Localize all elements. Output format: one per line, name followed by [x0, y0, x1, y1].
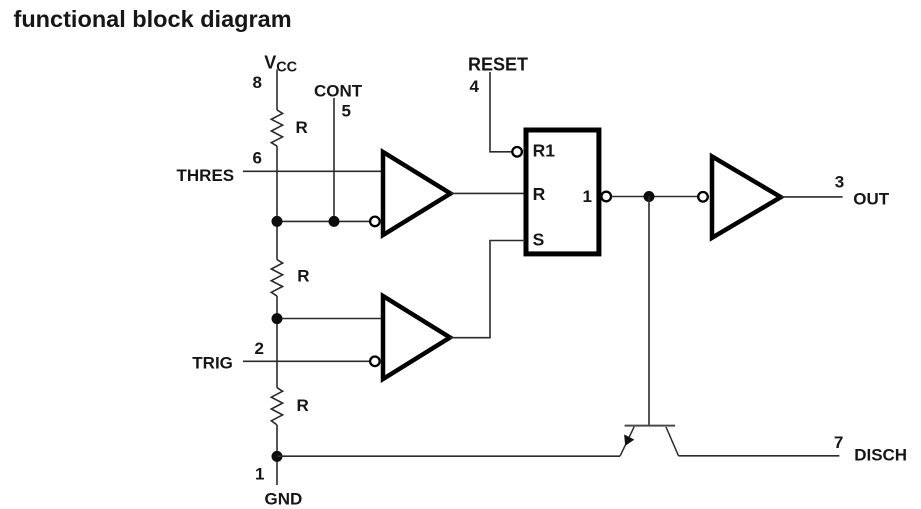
svg-text:2: 2 [255, 339, 264, 358]
wire OUT [781, 196, 843, 198]
svg-text:3: 3 [835, 173, 844, 192]
wire to transistor Q1 base [648, 197, 650, 426]
svg-text:R: R [297, 266, 309, 285]
wire rail upper [276, 146, 278, 260]
wire rail lower [276, 425, 278, 485]
svg-text:DISCH: DISCH [854, 446, 907, 465]
resistor R3 [271, 388, 282, 425]
resistor R1 [271, 110, 282, 146]
svg-text:V: V [264, 53, 276, 73]
input bubble comparator U2 [370, 357, 380, 367]
wire TRIG [243, 360, 370, 362]
wire rail middle [276, 296, 278, 388]
op-amp U1 threshold comparator [383, 152, 451, 235]
svg-text:R: R [297, 396, 309, 415]
input bubble output buffer U4 [698, 192, 708, 202]
svg-text:GND: GND [265, 490, 303, 509]
flip-flop U3 latch body [526, 130, 599, 254]
input bubble latch R1 input [512, 147, 522, 157]
svg-text:R: R [296, 118, 308, 137]
label VCC [264, 53, 297, 76]
svg-text:R1: R1 [533, 141, 556, 161]
node divider junction A [272, 216, 283, 227]
svg-text:6: 6 [253, 149, 262, 168]
svg-text:CC: CC [276, 60, 297, 76]
transistor Q1 emitter arrow [624, 434, 634, 446]
node trigger divider junction [272, 313, 283, 324]
svg-text:functional block diagram: functional block diagram [14, 6, 292, 32]
svg-text:R: R [533, 184, 546, 204]
wire U2 output to latch S input [450, 241, 525, 338]
svg-text:TRIG: TRIG [192, 354, 233, 373]
wire VCC stub [276, 70, 278, 111]
svg-text:S: S [533, 230, 545, 250]
output bubble latch [601, 192, 611, 202]
node CONT junction [329, 216, 340, 227]
wire RESET [490, 72, 511, 152]
svg-text:7: 7 [834, 433, 843, 452]
transistor Q1 collector [666, 427, 679, 456]
buffer U4 output stage [712, 156, 781, 237]
svg-text:RESET: RESET [468, 54, 528, 74]
wire comparator U2 plus input [277, 318, 383, 320]
svg-text:OUT: OUT [853, 190, 890, 209]
resistor R2 [271, 260, 282, 297]
transistor Q1 emitter [620, 427, 634, 457]
svg-text:1: 1 [583, 187, 592, 206]
node GND junction [272, 451, 283, 462]
node output junction [644, 191, 655, 202]
svg-text:1: 1 [255, 465, 264, 484]
wire emitter rail [277, 455, 620, 457]
transistor Q1 base bar [625, 425, 676, 427]
svg-text:THRES: THRES [177, 166, 235, 185]
wire comparator U1 inverting input [277, 220, 370, 222]
svg-text:CONT: CONT [314, 82, 363, 101]
wire THRES [243, 170, 383, 172]
input bubble comparator U1 [370, 217, 380, 227]
svg-text:4: 4 [470, 77, 480, 96]
svg-text:8: 8 [253, 73, 262, 92]
wire CONT [333, 98, 335, 221]
op-amp U2 trigger comparator [383, 296, 450, 379]
wire DISCH [679, 455, 840, 457]
svg-text:5: 5 [342, 102, 351, 121]
wire U1 output to latch R input [451, 192, 526, 194]
wire latch output to buffer [611, 196, 698, 198]
